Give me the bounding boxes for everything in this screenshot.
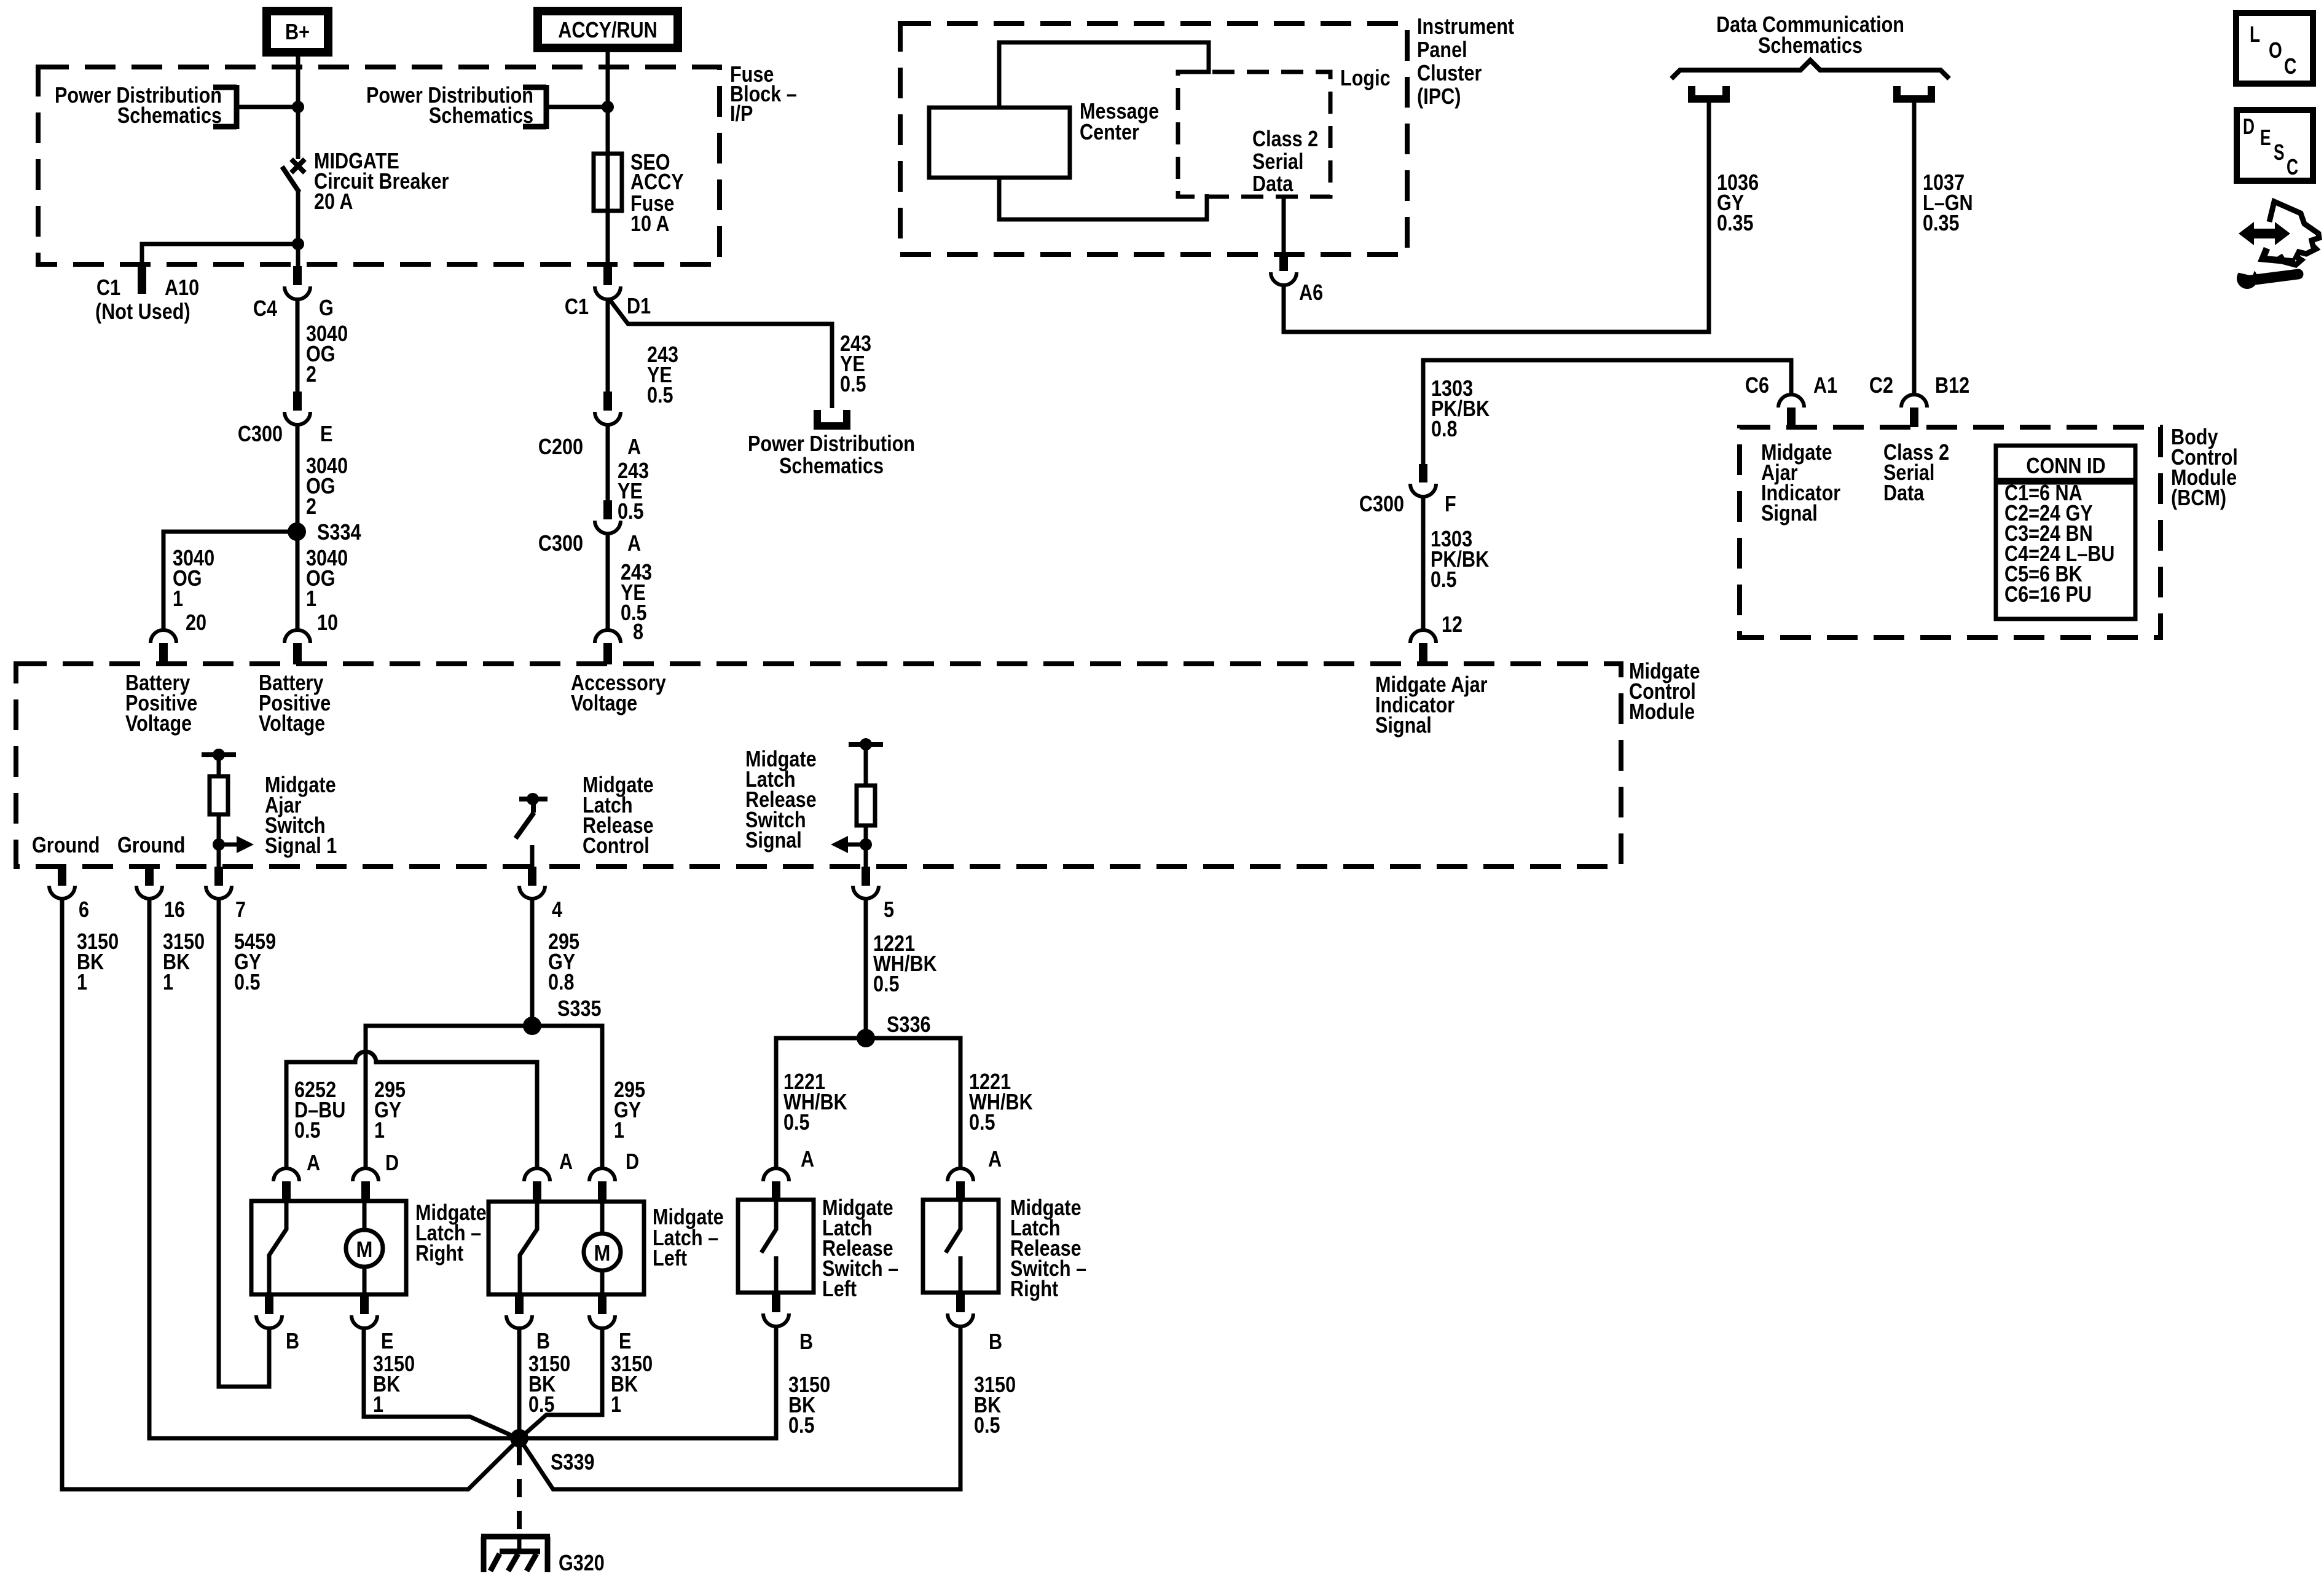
label 295 GY 1 left latch xyxy=(614,1077,645,1143)
wire pin5 to S336 xyxy=(864,899,868,1038)
wire pin16 to release left B xyxy=(149,899,776,1438)
svg-text:D1: D1 xyxy=(627,293,651,318)
svg-text:1: 1 xyxy=(373,1392,383,1417)
svg-text:B+: B+ xyxy=(285,19,310,44)
connector latch left pin B xyxy=(506,1294,550,1353)
label 243 YE 0.5 xyxy=(621,559,652,625)
label 5459 GY 0.5 xyxy=(234,929,276,994)
connector C2 pin B12 xyxy=(1869,372,1969,427)
svg-text:C300: C300 xyxy=(1359,491,1404,516)
svg-text:C: C xyxy=(2287,154,2298,179)
svg-text:4: 4 xyxy=(552,897,562,922)
connector C6 pin A1 xyxy=(1745,372,1837,427)
svg-text:1: 1 xyxy=(163,969,173,994)
svg-text:20 A: 20 A xyxy=(314,189,353,214)
label 3150 BK 0.5 release right xyxy=(974,1372,1016,1438)
svg-text:M: M xyxy=(356,1237,373,1262)
wire branch to C1 A10 xyxy=(142,244,298,263)
label 3150 BK 1 latch right xyxy=(373,1351,415,1417)
svg-text:(Not Used): (Not Used) xyxy=(95,299,190,324)
svg-text:Data: Data xyxy=(1883,480,1925,505)
svg-text:Ground: Ground xyxy=(32,832,100,857)
svg-text:Ground: Ground xyxy=(117,832,186,857)
connector A6 xyxy=(1271,252,1323,305)
connector latch right pin D xyxy=(353,1150,399,1202)
svg-text:B: B xyxy=(536,1328,550,1353)
svg-text:F: F xyxy=(1445,491,1456,516)
wire 243 YE 0.5 (C300 to module pin 8) xyxy=(606,534,610,630)
ground G320 xyxy=(481,1537,605,1575)
wire 1037 L-GN 0.35 xyxy=(1912,101,1917,394)
label Midgate Ajar Indicator Signal (BCM) xyxy=(1761,439,1840,526)
label 1303 PK/BK 0.8 xyxy=(1431,376,1490,441)
label Body Control Module (BCM) xyxy=(2171,424,2238,510)
label Ground Ground xyxy=(32,832,186,857)
svg-text:Data: Data xyxy=(1252,171,1294,196)
svg-text:0.5: 0.5 xyxy=(840,371,866,396)
label 1303 PK/BK 0.5 xyxy=(1431,526,1489,592)
wire S335 to latch right motor D xyxy=(366,1026,532,1167)
midgate latch release switch left box xyxy=(738,1200,814,1293)
svg-text:E: E xyxy=(2260,125,2271,150)
label 295 GY 1 right latch xyxy=(374,1077,406,1143)
svg-text:C1: C1 xyxy=(565,294,589,319)
wire pin6 to S339 xyxy=(62,899,519,1489)
svg-text:Left: Left xyxy=(653,1245,687,1270)
splice S339 xyxy=(510,1429,595,1475)
label 243 YE 0.5 xyxy=(618,458,649,524)
svg-text:C6=16 PU: C6=16 PU xyxy=(2004,581,2092,607)
svg-text:S339: S339 xyxy=(551,1449,595,1475)
svg-text:M: M xyxy=(594,1240,611,1266)
svg-text:C: C xyxy=(2284,53,2296,79)
splice S335 xyxy=(523,996,602,1035)
label 243 YE 0.5 xyxy=(647,342,678,408)
label Midgate Latch Release Switch Signal xyxy=(745,746,817,853)
fuse SEO ACCY 10A xyxy=(594,149,684,236)
svg-text:0.8: 0.8 xyxy=(548,969,575,994)
svg-text:B: B xyxy=(286,1328,299,1353)
svg-text:Schematics: Schematics xyxy=(429,103,533,128)
svg-text:Control: Control xyxy=(583,833,650,858)
IPC dashed box xyxy=(900,23,1407,254)
svg-text:Voltage: Voltage xyxy=(125,711,192,736)
svg-text:0.5: 0.5 xyxy=(647,382,673,408)
label 1037 L-GN 0.35 xyxy=(1923,170,1973,235)
wire latch left B to S339 xyxy=(517,1328,522,1438)
wire S334 down 3040 OG 1 xyxy=(296,532,300,630)
label Fuse Block I/P xyxy=(730,61,797,126)
svg-text:1: 1 xyxy=(173,586,183,611)
svg-text:Signal: Signal xyxy=(1375,712,1432,738)
connector C1 pin D1 xyxy=(565,266,651,319)
off-page bracket Power Distribution (ACCY) xyxy=(366,82,546,129)
svg-text:L: L xyxy=(2250,22,2260,47)
svg-text:20: 20 xyxy=(186,610,206,635)
svg-text:B: B xyxy=(799,1329,813,1354)
wire S339 to release right B xyxy=(519,1326,960,1489)
svg-text:16: 16 xyxy=(164,897,185,922)
connector latch left pin E xyxy=(589,1294,631,1353)
svg-text:D: D xyxy=(385,1150,399,1175)
label 295 GY 0.8 xyxy=(548,929,579,994)
CONN ID table xyxy=(1996,446,2135,619)
svg-text:A1: A1 xyxy=(1813,372,1837,398)
connector release right pin B xyxy=(948,1293,1002,1354)
svg-text:C6: C6 xyxy=(1745,372,1769,398)
label Midgate Control Module xyxy=(1629,658,1700,724)
terminal data bus right xyxy=(1897,86,1931,99)
connector module pin 4 xyxy=(519,867,562,922)
wire 1303 PK/BK 0.8 xyxy=(1423,360,1791,464)
svg-text:1: 1 xyxy=(611,1392,621,1417)
label 3150 BK 0.5 release left xyxy=(788,1372,830,1438)
connector latch right pin B xyxy=(256,1294,299,1353)
connector latch left pin A xyxy=(524,1149,573,1202)
svg-text:0.5: 0.5 xyxy=(783,1109,810,1135)
label Midgate Latch Right xyxy=(415,1200,487,1266)
wire pin4 to S335 xyxy=(530,899,535,1026)
svg-text:I/P: I/P xyxy=(730,101,753,126)
svg-text:A6: A6 xyxy=(1299,280,1323,305)
arrow left midgate latch release switch signal xyxy=(831,836,866,853)
fuse block I/P dashed box xyxy=(38,67,720,264)
svg-text:CONN ID: CONN ID xyxy=(2026,453,2105,478)
svg-text:S335: S335 xyxy=(557,996,602,1021)
connector module pin 16 xyxy=(136,867,185,922)
label 3040 OG 1 left xyxy=(173,545,214,611)
connector latch right pin E xyxy=(351,1294,393,1353)
svg-text:C200: C200 xyxy=(538,434,583,459)
svg-text:Schematics: Schematics xyxy=(1758,33,1863,58)
svg-text:G: G xyxy=(319,295,334,320)
off-page bracket Power Distribution (B+) xyxy=(55,82,237,129)
wire ACCY/RUN down xyxy=(606,52,610,266)
svg-text:B12: B12 xyxy=(1935,372,1969,398)
svg-text:(IPC): (IPC) xyxy=(1417,84,1461,109)
svg-text:Left: Left xyxy=(822,1276,857,1301)
connector release right pin A xyxy=(948,1146,1002,1201)
power feed B+ xyxy=(267,11,328,52)
svg-text:D: D xyxy=(626,1149,639,1174)
connector latch left pin D xyxy=(589,1149,639,1202)
svg-text:C2: C2 xyxy=(1869,372,1893,398)
svg-text:0.35: 0.35 xyxy=(1923,210,1960,235)
svg-text:0.5: 0.5 xyxy=(969,1109,995,1135)
label 3150 BK 1 pin16 xyxy=(163,929,205,994)
svg-text:Schematics: Schematics xyxy=(117,103,222,128)
svg-text:A: A xyxy=(627,530,641,556)
label Class 2 Serial Data (IPC) xyxy=(1252,126,1318,196)
wire 3040 OG 2 (C300 to S334) xyxy=(296,425,300,532)
BCM dashed box xyxy=(1740,427,2161,637)
label Accessory Voltage xyxy=(571,670,666,715)
node junction pin5 arrow xyxy=(860,838,872,851)
wire 6252 ajar switch link A to A with hop xyxy=(286,1052,537,1167)
svg-text:E: E xyxy=(381,1328,393,1353)
svg-text:A: A xyxy=(559,1149,573,1174)
circuit breaker MIDGATE 20A xyxy=(282,148,449,214)
wire class 2 serial data out xyxy=(1282,197,1286,252)
pin C1 A10 not used xyxy=(95,264,199,324)
svg-text:E: E xyxy=(320,421,332,446)
icon outline shape xyxy=(2269,202,2319,265)
svg-text:S336: S336 xyxy=(887,1012,931,1037)
wire S334 branch left 3040 OG 1 xyxy=(163,532,297,630)
wire 243 YE 0.5 (C200 to C300) xyxy=(606,425,610,500)
wire S335 to latch left motor D xyxy=(532,1026,602,1167)
wire dashed to ground xyxy=(517,1447,522,1537)
svg-text:0.35: 0.35 xyxy=(1717,210,1754,235)
label Midgate Latch Left xyxy=(653,1204,724,1270)
arrow right midgate ajar switch signal xyxy=(219,836,254,853)
svg-text:Right: Right xyxy=(1010,1276,1058,1301)
label Midgate Ajar Switch Signal 1 xyxy=(265,772,337,858)
label Midgate Latch Release Switch Right xyxy=(1010,1195,1086,1301)
svg-text:0.5: 0.5 xyxy=(234,969,261,994)
label 3150 BK 0.5 latch left B xyxy=(528,1351,570,1417)
svg-text:6: 6 xyxy=(79,897,89,922)
logic dashed box xyxy=(1178,65,1391,197)
svg-text:G320: G320 xyxy=(559,1550,605,1575)
switch internal latch release control xyxy=(516,793,548,867)
label Battery Positive Voltage 1 xyxy=(125,670,197,736)
svg-text:Signal 1: Signal 1 xyxy=(265,833,337,858)
wire bracket to ACCY feed xyxy=(546,105,608,109)
wire pin7 to latch right B xyxy=(219,899,269,1387)
icon double arrow xyxy=(2239,222,2290,245)
wire 243 YE branch diagonal to power distribution xyxy=(609,299,832,408)
label Instrument Panel Cluster (IPC) xyxy=(1417,14,1514,109)
wire B+ down xyxy=(296,57,300,159)
svg-text:2: 2 xyxy=(306,494,316,519)
svg-text:Center: Center xyxy=(1080,119,1139,144)
wire latch right E to S339 xyxy=(364,1328,519,1439)
label 3150 BK 1 pin6 xyxy=(77,929,119,994)
splice S336 xyxy=(857,1012,931,1047)
svg-text:1: 1 xyxy=(77,969,87,994)
label 1036 GY 0.35 xyxy=(1717,170,1759,235)
svg-text:Voltage: Voltage xyxy=(571,690,637,715)
wire latch left E to S339 xyxy=(519,1328,602,1439)
label Data Communication Schematics xyxy=(1716,12,1904,58)
icon outline tail xyxy=(2263,248,2295,262)
label 3040 OG 2 xyxy=(306,321,348,387)
label Midgate Latch Release Control xyxy=(583,772,654,858)
svg-text:7: 7 xyxy=(235,897,246,922)
svg-text:C300: C300 xyxy=(538,530,583,556)
connector C200 pin A xyxy=(538,392,641,459)
svg-text:D: D xyxy=(2243,114,2255,139)
node junction breaker out xyxy=(292,238,304,250)
svg-text:Panel: Panel xyxy=(1417,37,1467,62)
svg-text:1: 1 xyxy=(374,1117,385,1143)
svg-text:Serial: Serial xyxy=(1252,149,1303,174)
IPC internal wiring upper xyxy=(999,42,1209,108)
label 3040 OG 1 right xyxy=(306,545,348,611)
label 6252 D-BU 0.5 xyxy=(294,1077,345,1143)
midgate latch right box xyxy=(251,1201,406,1294)
message center block xyxy=(929,98,1159,178)
svg-text:Schematics: Schematics xyxy=(779,453,884,478)
svg-text:0.5: 0.5 xyxy=(974,1412,1000,1438)
svg-text:B: B xyxy=(989,1329,1002,1354)
svg-text:0.5: 0.5 xyxy=(788,1412,815,1438)
IPC internal wiring lower xyxy=(999,178,1207,219)
svg-text:Signal: Signal xyxy=(745,827,802,853)
label 1221 WH/BK 0.5 pin5 xyxy=(873,931,937,996)
svg-text:Cluster: Cluster xyxy=(1417,60,1482,85)
svg-text:C4: C4 xyxy=(253,296,277,321)
label Midgate Latch Release Switch Left xyxy=(822,1195,898,1301)
label 243 YE 0.5 branch xyxy=(840,331,871,396)
svg-text:A: A xyxy=(627,434,641,459)
svg-text:A10: A10 xyxy=(165,275,199,300)
svg-text:0.5: 0.5 xyxy=(1431,567,1457,592)
node junction ACCY tap xyxy=(602,101,614,113)
midgate latch left box xyxy=(489,1202,644,1294)
icon LOC box xyxy=(2236,13,2313,84)
svg-text:10 A: 10 A xyxy=(630,211,670,236)
resistor internal R1 xyxy=(202,749,236,867)
connector release left pin A xyxy=(763,1146,814,1201)
node junction pin7 arrow xyxy=(213,838,225,851)
connector module pin 12 xyxy=(1410,630,1436,664)
connector release left pin B xyxy=(763,1293,813,1354)
label 3150 BK 1 latch left E xyxy=(611,1351,653,1417)
connector module pin 5 xyxy=(853,867,894,922)
svg-text:S334: S334 xyxy=(317,519,361,545)
svg-text:0.8: 0.8 xyxy=(1431,416,1458,441)
svg-text:Class 2: Class 2 xyxy=(1252,126,1318,151)
icon DESC box xyxy=(2237,110,2313,181)
label Class 2 Serial Data (BCM) xyxy=(1883,439,1949,505)
connector module pin 8 xyxy=(595,630,621,664)
wire 243 YE 0.5 (C1 to C200) xyxy=(606,299,610,392)
connector module pin 20 xyxy=(151,630,176,664)
wire bracket to B+ feed xyxy=(237,105,298,109)
connector module pin 10 xyxy=(285,630,310,664)
svg-text:0.5: 0.5 xyxy=(294,1117,321,1143)
brace data communication xyxy=(1671,60,1949,79)
connector module pin 6 xyxy=(49,867,89,922)
svg-text:O: O xyxy=(2269,37,2282,63)
midgate control module dashed box xyxy=(16,664,1621,867)
wire A6 to data bus xyxy=(1284,101,1709,332)
svg-text:2: 2 xyxy=(306,361,316,387)
connector latch right pin A xyxy=(273,1150,320,1202)
svg-text:5: 5 xyxy=(884,897,894,922)
svg-text:0.5: 0.5 xyxy=(873,971,900,996)
svg-text:Module: Module xyxy=(1629,699,1695,724)
svg-text:10: 10 xyxy=(317,610,338,635)
svg-text:0.5: 0.5 xyxy=(618,498,644,524)
connector C4 pin G xyxy=(253,266,334,321)
midgate latch release switch right box xyxy=(923,1200,999,1293)
svg-text:C300: C300 xyxy=(238,421,283,446)
svg-text:C1: C1 xyxy=(96,275,120,300)
svg-text:A: A xyxy=(801,1146,814,1171)
icon wrench xyxy=(2237,262,2298,289)
svg-text:A: A xyxy=(988,1146,1002,1171)
resistor internal R2 xyxy=(849,738,883,867)
svg-text:8: 8 xyxy=(633,619,643,644)
svg-text:E: E xyxy=(619,1328,631,1353)
splice S334 xyxy=(288,519,361,545)
svg-text:S: S xyxy=(2274,140,2285,165)
connector C300 pin E xyxy=(238,392,333,446)
wire 1303 PK/BK 0.5 xyxy=(1421,497,1426,630)
connector C300 pin A xyxy=(538,500,641,556)
svg-text:Instrument: Instrument xyxy=(1417,14,1514,39)
label 1221 WH/BK 0.5 left xyxy=(783,1069,847,1135)
label Battery Positive Voltage 2 xyxy=(259,670,331,736)
svg-text:A: A xyxy=(307,1150,320,1175)
svg-text:Voltage: Voltage xyxy=(259,711,325,736)
svg-text:12: 12 xyxy=(1442,612,1462,637)
svg-text:1: 1 xyxy=(306,586,316,611)
svg-text:Logic: Logic xyxy=(1340,65,1391,90)
svg-text:Signal: Signal xyxy=(1761,500,1818,526)
terminal power distribution schematics xyxy=(748,410,915,478)
wire 3040 OG 2 (C4 to C300) xyxy=(296,299,300,392)
svg-text:1: 1 xyxy=(614,1117,624,1143)
wire breaker down xyxy=(296,191,300,266)
connector module pin 7 xyxy=(206,867,246,922)
label 1221 WH/BK 0.5 right xyxy=(969,1069,1033,1135)
terminal data bus left xyxy=(1692,86,1726,99)
svg-text:Power Distribution: Power Distribution xyxy=(748,431,915,456)
node junction B+ tap xyxy=(292,101,304,113)
svg-text:ACCY/RUN: ACCY/RUN xyxy=(558,17,658,42)
label Midgate Ajar Indicator Signal (module) xyxy=(1375,672,1488,738)
connector C300 pin F xyxy=(1359,464,1456,516)
power feed ACCY/RUN xyxy=(538,11,678,48)
wire S336 to release switches xyxy=(776,1038,960,1167)
svg-text:Right: Right xyxy=(415,1240,463,1266)
svg-text:(BCM): (BCM) xyxy=(2171,485,2226,510)
label 3040 OG 2 xyxy=(306,453,348,519)
